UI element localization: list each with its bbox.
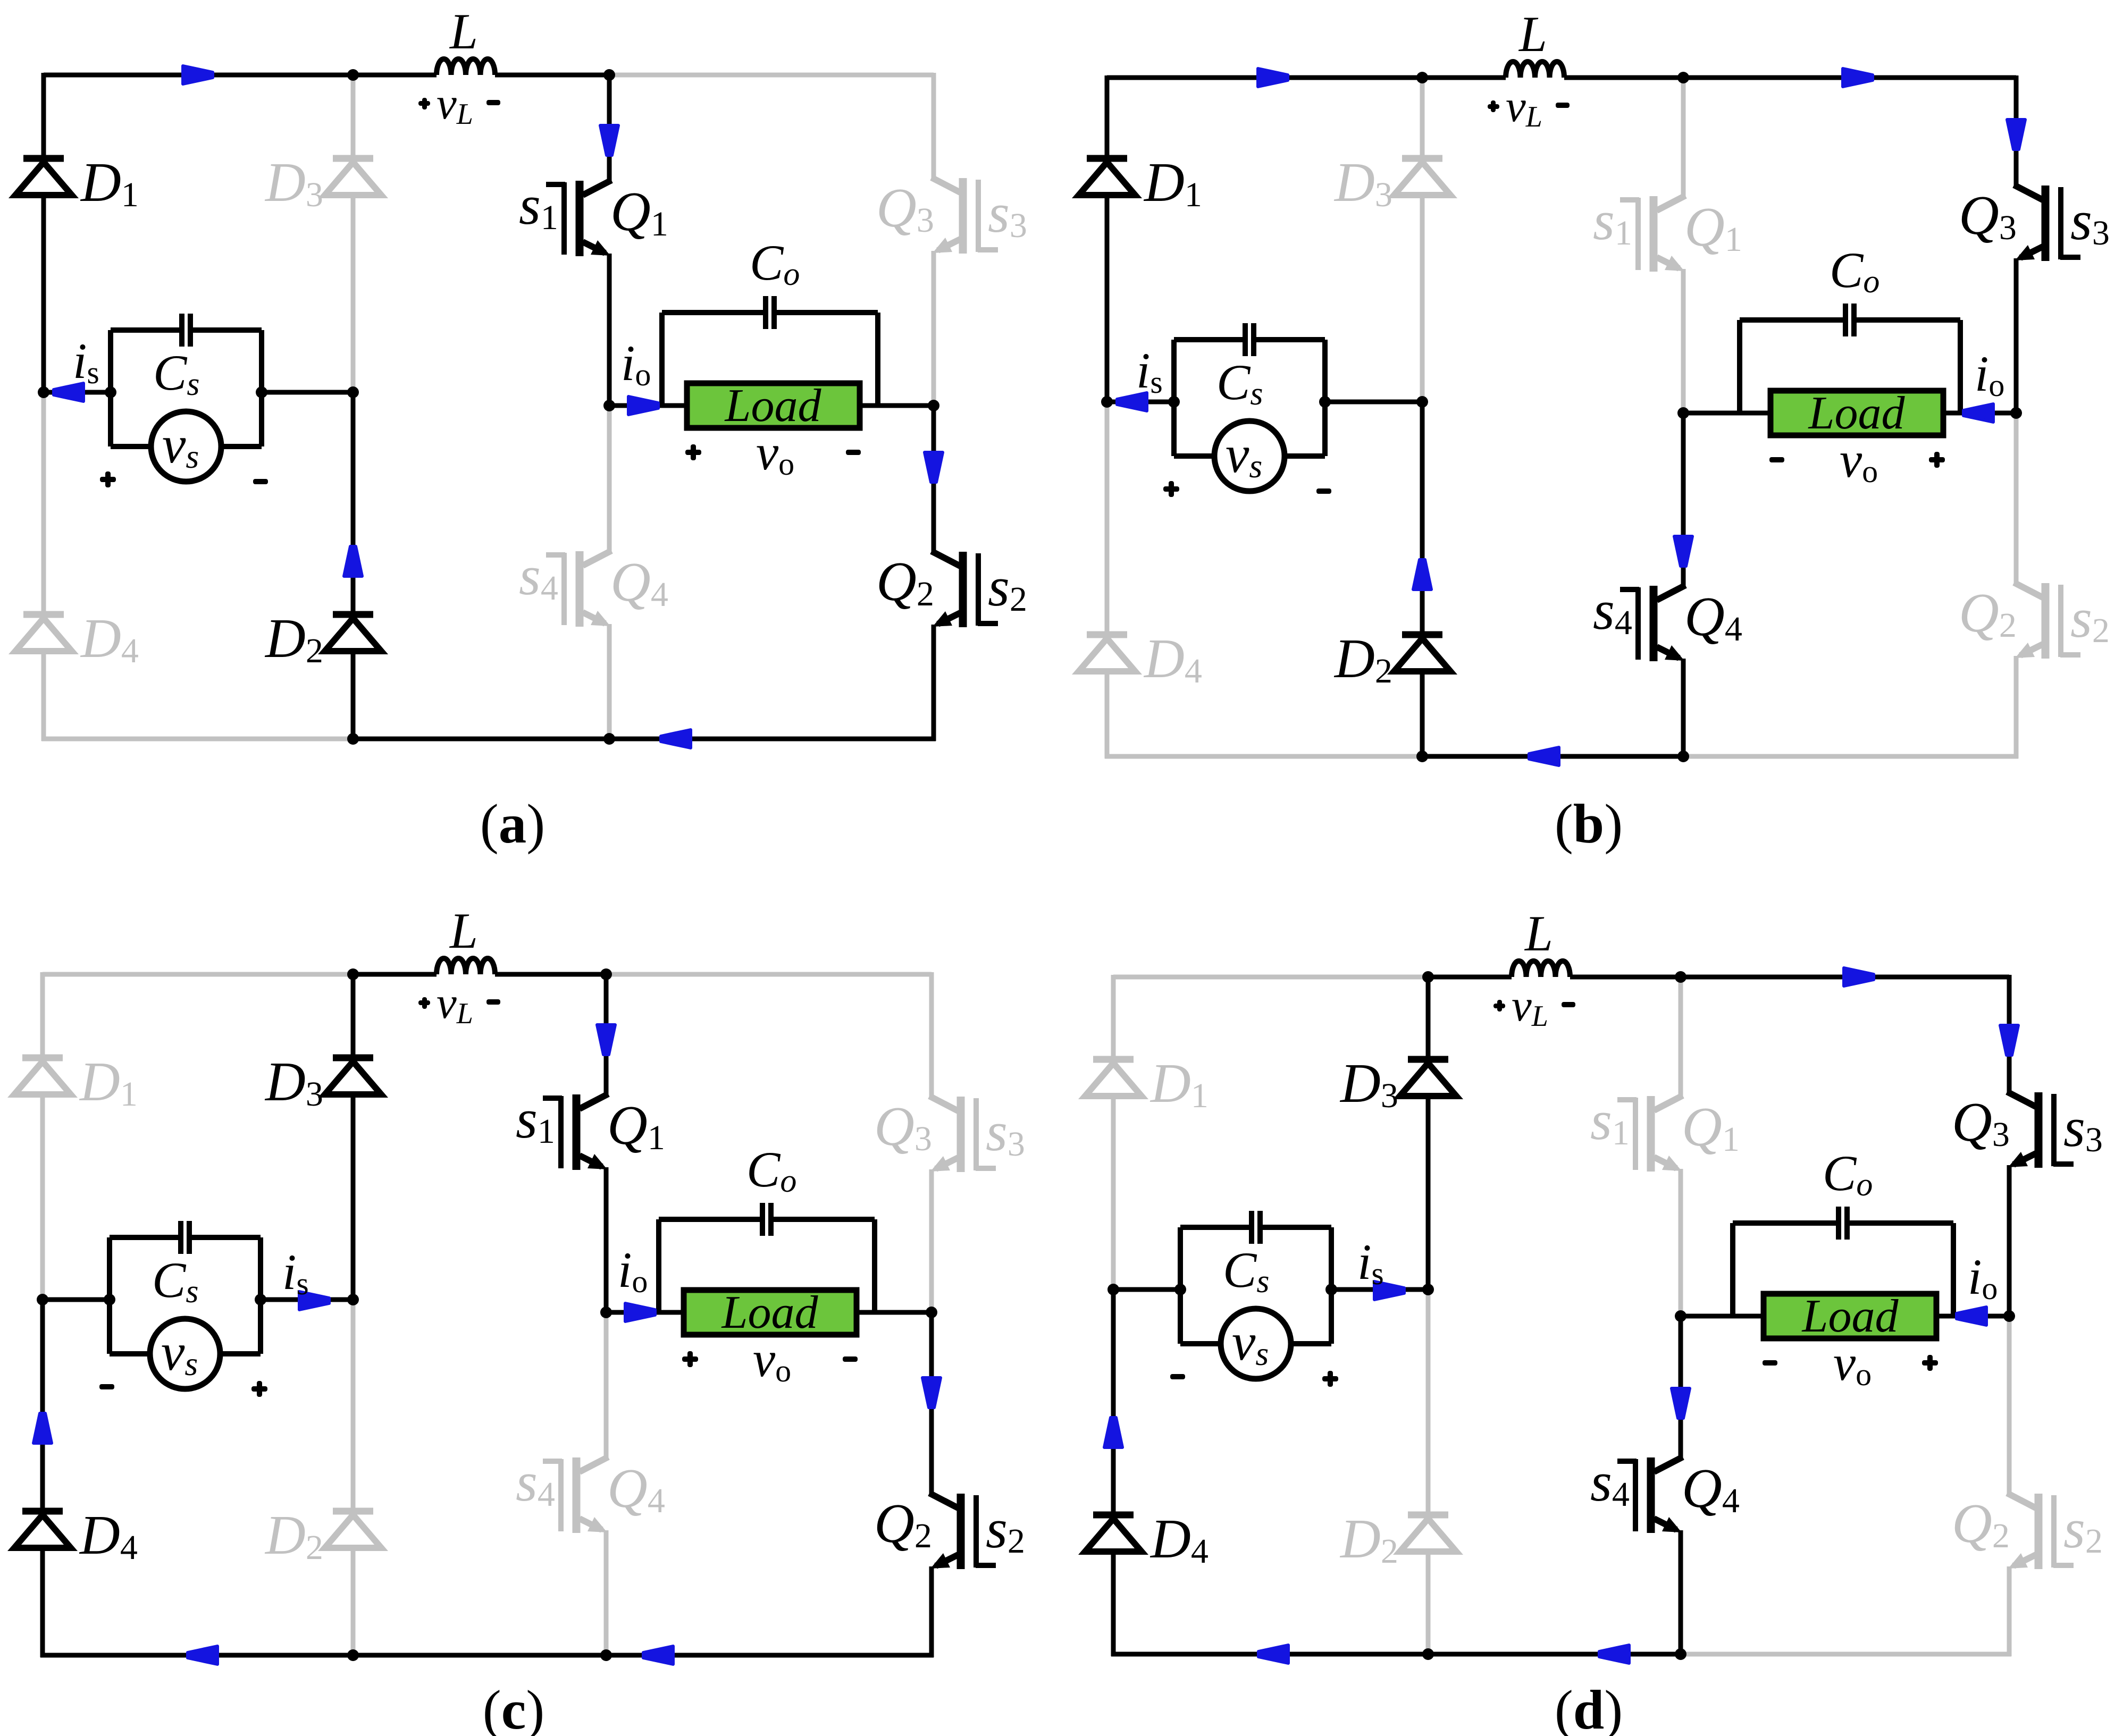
svg-text:L: L [449, 903, 478, 959]
capacitor Cs plates (a) [179, 314, 184, 347]
node bottom rail mid (a) [347, 733, 359, 745]
wire bottom rail mid segment (a) [353, 737, 609, 741]
wire D3 to node (b) [1420, 195, 1425, 402]
wire top rail right segment (c) [606, 972, 932, 977]
wire Q4 emitter to bottom rail (d) [1679, 1530, 1683, 1654]
diode D2 (a) [333, 611, 373, 618]
source vs (a) [111, 444, 151, 449]
inductor L (a) [437, 59, 495, 75]
current arrow D (c) [922, 1378, 941, 1408]
wire bottom rail mid segment (d) [1428, 1652, 1681, 1657]
wire mid column upper (c) [351, 974, 356, 1058]
node top rail mid (a) [347, 69, 359, 81]
wire D1 to node (c) [40, 1094, 45, 1300]
wire mid column lower (a) [351, 392, 356, 614]
transistor Q2 (c) [976, 1563, 996, 1568]
current arrow U (b) [1413, 560, 1431, 589]
node bottom rail q (a) [603, 733, 615, 745]
wire D4 to bottom rail (b) [1105, 671, 1110, 759]
current arrow is (c) [299, 1292, 329, 1310]
svg-text:L: L [1518, 6, 1547, 62]
node top rail q (c) [600, 968, 612, 980]
wire mid column upper (b) [1420, 78, 1425, 158]
wire D3 to node (c) [351, 1094, 356, 1300]
current arrow is (b) [1117, 393, 1147, 411]
wire D1 to node (b) [1105, 195, 1110, 402]
transistor Q2 (d) [2053, 1563, 2074, 1568]
node load right (c) [926, 1307, 937, 1318]
wire inductor to node (d) [1570, 975, 1681, 980]
diode D1 (b) [1087, 155, 1127, 162]
wire load node to Q2 collector (c) [929, 1312, 934, 1494]
wire Q4 emitter to bottom rail (c) [604, 1530, 609, 1655]
wire top rail corner to Q3 (d) [2007, 975, 2012, 1093]
wire load node to Q2 collector (b) [2014, 413, 2019, 584]
capacitor Co bracket (a) [659, 313, 665, 406]
wire inductor to node (c) [495, 972, 606, 977]
current arrow U (d) [1104, 1418, 1122, 1447]
node top rail mid (b) [1416, 72, 1428, 83]
polarity vo (c) [682, 1356, 698, 1362]
current arrow L (d) [1599, 1645, 1629, 1663]
node row left end (a) [38, 386, 49, 398]
wire Q1 emitter to load node (c) [604, 1167, 609, 1312]
label vL (a) [418, 101, 430, 106]
capacitor Cs bracket (c) [107, 1237, 112, 1354]
wire node row left (c) [43, 1297, 110, 1302]
capacitor Co plates (d) [1836, 1207, 1841, 1240]
polarity vs (b) [1163, 486, 1179, 492]
wire left column upper (c) [40, 972, 45, 1058]
node bottom rail mid (c) [347, 1649, 359, 1661]
transistor Q1 (b) [1620, 197, 1639, 203]
node load left (c) [600, 1307, 612, 1318]
wire load node to Q4 collector (c) [604, 1312, 609, 1458]
wire left column upper (a) [41, 73, 46, 158]
wire left column lower (a) [41, 392, 46, 614]
wire load row left (d) [1681, 1314, 1764, 1319]
current arrow L (a) [661, 730, 691, 748]
wire load row right (b) [1943, 411, 2016, 416]
wire D4 to bottom rail (a) [41, 651, 46, 741]
wire Q3 emitter to load node (a) [932, 251, 936, 406]
node load left (b) [1677, 407, 1689, 419]
diode D4 (d) [1093, 1512, 1134, 1519]
diode D1 (c) [22, 1055, 63, 1061]
node top rail mid (c) [347, 968, 359, 980]
wire top rail mid segment (a) [353, 73, 437, 78]
wire load row right (d) [1936, 1314, 2009, 1319]
wire top rail mid segment (c) [353, 972, 437, 977]
node Cs left (d) [1174, 1284, 1186, 1295]
wire bottom rail left segment (d) [1111, 1652, 1428, 1657]
current arrow D (b) [1674, 536, 1692, 566]
polarity vs (d) [1170, 1374, 1185, 1379]
wire top rail corner to Q3 (a) [932, 73, 936, 179]
current arrow L (b) [1529, 747, 1559, 765]
node row mid column (c) [347, 1294, 359, 1305]
diode D3 (b) [1402, 155, 1442, 162]
wire top rail mid segment (d) [1428, 975, 1512, 980]
transistor Q4 (d) [1617, 1459, 1637, 1464]
wire Q2 emitter to bottom rail (c) [929, 1566, 934, 1657]
label vL (c) [418, 1000, 430, 1005]
transistor Q4 (b) [1620, 587, 1639, 592]
current arrow D (a) [600, 125, 618, 155]
wire node to Q1 collector (d) [1679, 977, 1683, 1097]
transistor Q2 (b) [2060, 652, 2080, 658]
current arrow D (d) [1672, 1388, 1690, 1418]
capacitor Cs plates (b) [1243, 323, 1248, 356]
node row left end (c) [37, 1294, 48, 1305]
wire D3 to node (d) [1426, 1096, 1431, 1290]
current arrow L (d) [1258, 1645, 1288, 1663]
transistor Q3 (b) [2060, 255, 2080, 260]
capacitor Co plates (b) [1843, 304, 1848, 336]
wire load node to Q4 collector (a) [607, 406, 612, 552]
inductor L (d) [1512, 961, 1570, 977]
wire bottom rail mid segment (c) [353, 1653, 606, 1658]
wire D2 to bottom rail (a) [351, 651, 356, 739]
capacitor Co bracket (d) [1730, 1223, 1735, 1316]
load box (b) [1770, 391, 1943, 435]
wire left column upper (d) [1111, 975, 1116, 1059]
node Cs left (c) [104, 1294, 115, 1305]
node top rail q (d) [1675, 971, 1686, 983]
wire mid column upper (d) [1426, 977, 1431, 1059]
transistor Q4 (c) [543, 1459, 562, 1464]
wire bottom rail right segment (c) [606, 1653, 934, 1658]
current arrow is (a) [54, 383, 83, 401]
label vL (d) [1493, 1004, 1505, 1008]
wire Q2 emitter to bottom rail (b) [2014, 656, 2019, 759]
wire load row right (c) [857, 1310, 932, 1315]
wire Cs row to mid column (d) [1331, 1287, 1428, 1292]
wire top rail left segment (c) [43, 972, 353, 977]
transistor Q3 (d) [2053, 1161, 2074, 1167]
current arrow D (c) [597, 1025, 615, 1055]
wire bottom rail right segment (a) [609, 737, 936, 741]
wire mid column lower (b) [1420, 402, 1425, 635]
current arrow io (d) [1957, 1307, 1986, 1325]
wire left column lower (d) [1111, 1290, 1116, 1515]
capacitor Cs plates (c) [178, 1221, 183, 1254]
current arrow L (c) [643, 1646, 673, 1664]
polarity vo (a) [685, 450, 701, 455]
wire mid column lower (d) [1426, 1290, 1431, 1515]
capacitor Cs bracket (a) [108, 330, 113, 446]
wire bottom rail right segment (b) [1683, 754, 2018, 759]
capacitor Co plates (c) [760, 1203, 765, 1236]
wire Cs row to mid column (c) [261, 1297, 353, 1302]
wire Q2 emitter to bottom rail (a) [932, 625, 936, 741]
wire Q1 emitter to load node (d) [1679, 1169, 1683, 1316]
node row left end (b) [1101, 396, 1113, 408]
transistor Q2 (a) [978, 621, 998, 626]
node load right (d) [2003, 1310, 2015, 1322]
wire node row left (a) [44, 390, 111, 395]
node row mid column (b) [1416, 396, 1428, 408]
wire load node to Q4 collector (d) [1679, 1316, 1683, 1458]
node bottom rail q (b) [1677, 751, 1689, 762]
diode D4 (b) [1087, 631, 1127, 638]
wire bottom rail mid segment (b) [1422, 754, 1683, 759]
capacitor Co bracket (b) [1737, 320, 1742, 413]
wire node row left (b) [1107, 400, 1174, 404]
wire D3 to node (a) [351, 195, 356, 392]
wire Q4 emitter to bottom rail (b) [1681, 659, 1686, 756]
wire load row left (a) [609, 403, 687, 408]
wire load node to Q4 collector (b) [1681, 413, 1686, 586]
source vs (d) [1180, 1341, 1221, 1346]
wire node to Q1 collector (a) [607, 75, 612, 181]
node load right (a) [928, 400, 939, 411]
load box (a) [687, 383, 860, 428]
capacitor Cs plates (d) [1249, 1211, 1254, 1244]
svg-text:(a): (a) [480, 793, 545, 855]
wire bottom rail right segment (d) [1681, 1652, 2011, 1657]
polarity vs (a) [100, 477, 116, 482]
capacitor Cs bracket (b) [1171, 340, 1177, 456]
wire load node to Q2 collector (d) [2007, 1316, 2012, 1494]
wire Q2 emitter to bottom rail (d) [2007, 1566, 2012, 1656]
node Cs right (a) [256, 386, 267, 398]
wire node row left (d) [1113, 1287, 1180, 1292]
wire top rail left segment (a) [44, 73, 353, 78]
transistor Q1 (a) [546, 182, 565, 187]
polarity vo (b) [1769, 457, 1784, 462]
capacitor Co plates (a) [763, 296, 768, 329]
polarity vs (c) [99, 1384, 114, 1389]
current arrow is (d) [1374, 1282, 1404, 1300]
svg-text:(c): (c) [483, 1679, 545, 1736]
wire load row left (b) [1683, 411, 1770, 416]
wire left column upper (b) [1105, 75, 1110, 158]
wire Q4 emitter to bottom rail (a) [607, 624, 612, 739]
diode D3 (a) [333, 155, 373, 162]
wire D2 to bottom rail (d) [1426, 1552, 1431, 1654]
node load left (d) [1675, 1310, 1686, 1322]
svg-text:L: L [1524, 905, 1553, 962]
transistor Q3 (c) [976, 1166, 996, 1171]
wire left column lower (b) [1105, 402, 1110, 635]
node load left (a) [603, 400, 615, 411]
current arrow io (b) [1963, 404, 1993, 422]
wire top rail corner to Q3 (c) [929, 972, 934, 1097]
wire bottom rail left segment (a) [41, 737, 353, 741]
load box (d) [1764, 1294, 1936, 1338]
source vs (c) [110, 1351, 150, 1356]
load box (c) [684, 1290, 857, 1335]
wire left column lower (c) [40, 1300, 45, 1511]
wire top rail left segment (b) [1107, 75, 1422, 80]
wire load node to Q2 collector (a) [932, 406, 936, 552]
current arrow L (c) [188, 1646, 217, 1664]
current arrow R (b) [1843, 69, 1873, 87]
current arrow U (c) [33, 1413, 52, 1443]
node load right (b) [2010, 407, 2022, 419]
transistor Q1 (d) [1617, 1097, 1637, 1102]
current arrow io (a) [628, 397, 658, 415]
transistor Q3 (a) [978, 247, 998, 252]
node bottom rail q (c) [600, 1649, 612, 1661]
current arrow R (d) [1844, 968, 1874, 986]
node top rail q (a) [603, 69, 615, 81]
svg-text:L: L [449, 3, 478, 60]
wire top rail right segment (a) [609, 73, 934, 78]
diode D2 (c) [333, 1508, 373, 1515]
wire top rail corner to Q3 (b) [2014, 75, 2019, 186]
wire node to Q1 collector (c) [604, 974, 609, 1095]
node Cs left (a) [105, 386, 116, 398]
wire D4 to bottom rail (d) [1111, 1552, 1116, 1656]
wire D4 to bottom rail (c) [40, 1548, 45, 1657]
wire inductor to node (b) [1564, 75, 1683, 80]
current arrow R (a) [183, 66, 213, 84]
node Cs right (d) [1325, 1284, 1337, 1295]
wire top rail left segment (d) [1113, 975, 1428, 980]
diode D2 (b) [1402, 631, 1442, 638]
inductor L (c) [437, 958, 495, 974]
wire Q3 emitter to load node (c) [929, 1169, 934, 1312]
capacitor Cs bracket (d) [1178, 1227, 1183, 1344]
diode D3 (d) [1408, 1056, 1448, 1063]
wire node to Q1 collector (b) [1681, 78, 1686, 197]
diode D1 (a) [23, 155, 64, 162]
wire load row left (c) [606, 1310, 684, 1315]
diode D4 (c) [22, 1508, 63, 1515]
svg-text:(d): (d) [1555, 1679, 1623, 1736]
diode D1 (d) [1093, 1056, 1134, 1063]
wire D2 to bottom rail (c) [351, 1548, 356, 1655]
node row left end (d) [1107, 1284, 1119, 1295]
wire bottom rail left segment (c) [40, 1653, 353, 1658]
node row mid column (d) [1422, 1284, 1434, 1295]
wire Q1 emitter to load node (a) [607, 254, 612, 406]
wire Q1 emitter to load node (b) [1681, 269, 1686, 413]
wire top rail right segment (d) [1681, 975, 2009, 980]
wire mid column lower (c) [351, 1300, 356, 1511]
wire top rail mid segment (b) [1422, 75, 1506, 80]
node bottom rail q (d) [1675, 1648, 1686, 1660]
current arrow R (b) [1258, 69, 1288, 87]
label vL (b) [1488, 104, 1499, 109]
wire load row right (a) [860, 403, 934, 408]
node Cs left (b) [1168, 396, 1180, 408]
wire D1 to node (a) [41, 195, 46, 392]
node bottom rail mid (b) [1416, 751, 1428, 762]
inductor L (b) [1506, 62, 1564, 78]
diode D4 (a) [23, 611, 64, 618]
wire Q3 emitter to load node (b) [2014, 258, 2019, 413]
svg-text:(b): (b) [1555, 793, 1623, 855]
current arrow D (d) [2000, 1025, 2018, 1055]
wire D2 to bottom rail (b) [1420, 671, 1425, 756]
current arrow U (a) [344, 546, 362, 576]
wire Q3 emitter to load node (d) [2007, 1165, 2012, 1316]
node bottom rail mid (d) [1422, 1648, 1434, 1660]
capacitor Co bracket (c) [656, 1219, 661, 1312]
diode D3 (c) [333, 1055, 373, 1061]
transistor Q4 (a) [546, 552, 565, 558]
wire Cs row to mid column (b) [1325, 400, 1422, 404]
polarity vo (d) [1763, 1360, 1777, 1366]
wire D1 to node (d) [1111, 1096, 1116, 1290]
wire bottom rail left segment (b) [1105, 754, 1422, 759]
wire mid column upper (a) [351, 75, 356, 158]
current arrow D (b) [2007, 120, 2025, 149]
wire Cs row to mid column (a) [262, 390, 353, 395]
source vs (b) [1174, 453, 1214, 459]
node row mid column (a) [347, 386, 359, 398]
wire inductor to node (a) [495, 73, 609, 78]
diode D2 (d) [1408, 1512, 1448, 1519]
node Cs right (c) [255, 1294, 266, 1305]
node top rail q (b) [1677, 72, 1689, 83]
wire top rail right segment (b) [1683, 75, 2016, 80]
transistor Q1 (c) [543, 1095, 562, 1101]
current arrow io (c) [625, 1303, 655, 1321]
current arrow D (a) [925, 452, 943, 482]
node Cs right (b) [1319, 396, 1331, 408]
node top rail mid (d) [1422, 971, 1434, 983]
